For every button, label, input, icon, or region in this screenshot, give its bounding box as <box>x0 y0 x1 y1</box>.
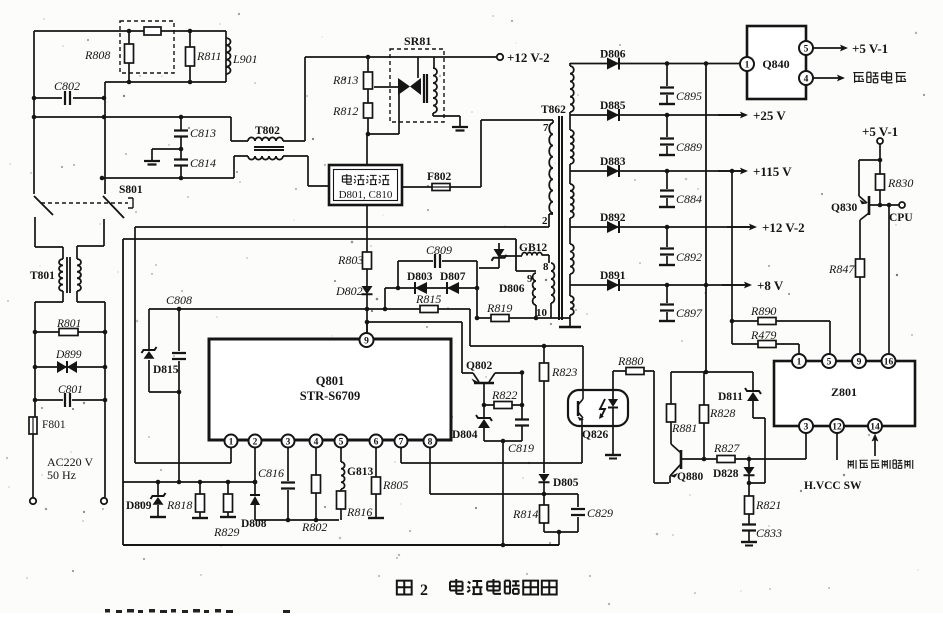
svg-text:R819: R819 <box>486 301 512 315</box>
svg-text:R801: R801 <box>56 318 81 330</box>
pin 4 of Q840 <box>799 71 813 85</box>
capacitor C801 <box>35 399 105 401</box>
capacitor C809 <box>398 261 477 318</box>
wire T802 secondary right <box>283 156 329 186</box>
wire bottom ground bus <box>123 544 559 546</box>
svg-text:C819: C819 <box>508 441 534 455</box>
svg-text:D892: D892 <box>600 212 626 224</box>
svg-text:AC220 V: AC220 V <box>47 455 93 469</box>
capacitor C819 <box>521 372 523 441</box>
arrow reset voltage output <box>813 77 839 79</box>
svg-text:Q840: Q840 <box>762 57 789 71</box>
svg-text:+25 V: +25 V <box>753 108 786 123</box>
resistor R821 <box>748 483 750 524</box>
svg-text:H.VCC SW: H.VCC SW <box>804 480 862 492</box>
svg-text:Q880: Q880 <box>677 471 703 483</box>
resistor R880 <box>626 368 644 375</box>
svg-text:9: 9 <box>857 357 862 367</box>
wire opto LED top to R880 <box>613 371 626 390</box>
svg-text:R881: R881 <box>671 421 697 435</box>
wire primary ground return <box>123 239 536 271</box>
svg-text:C895: C895 <box>676 89 702 103</box>
svg-text:Q802: Q802 <box>466 360 492 372</box>
resistor R802 <box>315 447 317 520</box>
pin 12 of Z801 <box>830 419 844 433</box>
svg-text:CPU: CPU <box>889 212 913 224</box>
svg-text:R814: R814 <box>512 507 538 521</box>
svg-text:F801: F801 <box>42 419 66 431</box>
svg-text:D805: D805 <box>553 477 579 489</box>
diode D885 <box>570 114 741 116</box>
pin 16 of Z801 <box>882 354 896 368</box>
svg-text:5: 5 <box>339 437 344 447</box>
svg-text:R802: R802 <box>301 520 327 534</box>
svg-text:+115 V: +115 V <box>753 164 792 179</box>
capacitor C889 <box>666 115 668 154</box>
svg-text:D809: D809 <box>126 500 152 512</box>
wire box top <box>366 134 368 165</box>
wire left AC rail <box>34 31 63 259</box>
inductor L901 <box>225 31 227 82</box>
diode D806 <box>570 63 740 65</box>
svg-text:D891: D891 <box>600 270 626 282</box>
capacitor C895 <box>666 64 668 104</box>
svg-text:F802: F802 <box>427 171 452 183</box>
resistor R801 <box>35 331 105 333</box>
wire T801 bottom leads <box>35 291 63 417</box>
svg-text:C884: C884 <box>676 192 702 206</box>
diode D803 <box>415 282 427 294</box>
transformer T802 <box>248 137 283 141</box>
svg-text:50 Hz: 50 Hz <box>47 468 76 482</box>
svg-text:8: 8 <box>543 261 549 273</box>
resistor R811 <box>189 31 191 82</box>
svg-text:S801: S801 <box>119 184 143 196</box>
pin 3 of Z801 <box>799 419 813 433</box>
wire coil to ground <box>433 113 460 126</box>
capacitor C829 <box>577 494 579 532</box>
svg-text:R813: R813 <box>332 73 358 87</box>
svg-text:6: 6 <box>374 437 379 447</box>
ground near C813 <box>152 149 181 160</box>
svg-text:C808: C808 <box>166 293 192 307</box>
svg-text:R829: R829 <box>213 525 239 539</box>
wire pin2 bottom bus <box>255 519 339 521</box>
diode D892 <box>570 226 750 228</box>
wire F802 to T862 pin7 <box>481 120 553 187</box>
svg-text:D883: D883 <box>600 156 626 168</box>
wire +12V-2 top line <box>305 56 434 58</box>
svg-text:C892: C892 <box>676 250 702 264</box>
svg-text:C802: C802 <box>54 79 80 93</box>
svg-text:D815: D815 <box>153 364 179 376</box>
svg-text:D804: D804 <box>452 429 478 441</box>
wire pin12 HVCC SW <box>836 433 838 460</box>
svg-text:7: 7 <box>399 437 404 447</box>
wire supply rail to R881 R828 <box>671 371 753 373</box>
wire D803 line <box>385 288 477 309</box>
svg-text:D803: D803 <box>407 271 433 283</box>
switch S801 <box>34 196 53 215</box>
wire pin14 overvoltage detect <box>874 438 876 456</box>
svg-text:1: 1 <box>745 60 750 70</box>
svg-text:C829: C829 <box>587 506 613 520</box>
svg-text:T862: T862 <box>541 104 566 116</box>
zener diode D809 <box>157 482 159 495</box>
wire R812 bottom to triac <box>368 94 399 134</box>
resistor R805 <box>375 447 377 517</box>
svg-text:D899: D899 <box>55 349 82 361</box>
capacitor C814 <box>180 149 182 178</box>
svg-text:R847: R847 <box>828 262 855 276</box>
svg-text:R830: R830 <box>887 176 913 190</box>
wire opto ground <box>612 426 614 454</box>
dashed box around R808 <box>120 21 174 73</box>
svg-text:16: 16 <box>884 357 894 367</box>
svg-text:4: 4 <box>314 437 319 447</box>
IC Z801 box <box>774 361 915 426</box>
zener diode D804 <box>483 405 485 418</box>
svg-text:2: 2 <box>253 437 258 447</box>
svg-text:7: 7 <box>543 122 549 134</box>
bidirectional diode D899 <box>35 366 105 368</box>
resistor (top, unlabeled) in dashed box <box>144 27 161 35</box>
svg-text:Q801: Q801 <box>316 374 344 388</box>
pin 1 of Q840 <box>740 57 754 71</box>
capacitor C892 <box>666 227 668 264</box>
wire zener bus <box>123 481 256 483</box>
wire Q830 base to CPU <box>869 204 899 206</box>
wire pin8 to D805 R814 C829 <box>430 447 578 494</box>
pin 9 of Q801 <box>366 322 368 333</box>
diode D891 <box>570 284 745 286</box>
svg-text:14: 14 <box>870 422 880 432</box>
wire triac gate <box>374 86 398 88</box>
fuse F801 <box>29 417 37 434</box>
diode D808 <box>254 447 256 495</box>
svg-text:3: 3 <box>804 422 809 432</box>
svg-text:R821: R821 <box>755 498 781 512</box>
resistor R890 <box>732 321 830 354</box>
wire box bottom <box>366 205 368 252</box>
svg-text:R818: R818 <box>166 498 192 512</box>
diode D828 <box>748 459 750 467</box>
block rectifier-filter D801 C810 <box>329 165 402 205</box>
relay SR81 dashed box <box>390 49 444 122</box>
zener diode D811 <box>752 372 754 391</box>
svg-text:R880: R880 <box>617 354 643 368</box>
pin 5 of Q840 <box>799 41 813 55</box>
resistor R819 <box>479 317 570 319</box>
svg-text:T801: T801 <box>30 270 55 282</box>
svg-text:SR81: SR81 <box>404 34 431 48</box>
svg-text:R808: R808 <box>84 48 110 62</box>
resistor R815 <box>420 306 438 313</box>
IC Q801 STR-S6709 box <box>209 339 451 440</box>
svg-text:+5 V-1: +5 V-1 <box>852 41 888 56</box>
wire R880 to Q880 emitter <box>644 371 669 483</box>
caption Figure 2 <box>397 581 412 595</box>
wire Q830 collector to R847 <box>860 213 869 259</box>
resistor R803 <box>363 252 372 269</box>
svg-text:+8 V: +8 V <box>757 278 784 293</box>
svg-text:9: 9 <box>364 336 369 346</box>
transformer GB12 winding <box>499 255 549 263</box>
capacitor C813 <box>180 117 182 149</box>
zener diode D806 <box>479 243 499 268</box>
capacitor C816 <box>287 447 289 520</box>
T862 winding end bar <box>569 318 571 326</box>
svg-text:D807: D807 <box>440 271 466 283</box>
transistor Q802 <box>474 382 494 385</box>
svg-text:C801: C801 <box>58 384 83 396</box>
resistor R818 <box>199 482 201 517</box>
svg-text:R822: R822 <box>491 388 517 402</box>
diode D802 <box>366 269 368 286</box>
svg-text:R815: R815 <box>415 292 441 306</box>
resistor R847 <box>856 259 865 277</box>
svg-text:T802: T802 <box>255 125 280 137</box>
wire pin7 to optocoupler <box>401 426 582 463</box>
svg-text:+12 V-2: +12 V-2 <box>507 50 550 65</box>
svg-text:2: 2 <box>542 215 548 227</box>
transistor Q880 <box>680 450 683 469</box>
svg-text:C813: C813 <box>190 126 216 140</box>
svg-text:2: 2 <box>420 582 428 599</box>
resistor R822 <box>484 404 522 406</box>
svg-text:R479: R479 <box>750 328 776 342</box>
svg-text:3: 3 <box>286 437 291 447</box>
arrow +5V-1 output <box>813 47 842 49</box>
pin 9 of Z801 <box>852 354 866 368</box>
svg-text:D885: D885 <box>600 100 626 112</box>
resistor R816 <box>340 489 342 491</box>
cut-off text at bottom edge <box>105 609 110 613</box>
pin 5 of Z801 <box>822 354 836 368</box>
zener diode D815 <box>148 309 150 349</box>
resistor R823 <box>543 346 545 363</box>
wire C813 feed <box>34 117 248 141</box>
IC Q840 box <box>747 26 806 99</box>
svg-text:C814: C814 <box>190 156 216 170</box>
svg-text:Q826: Q826 <box>582 429 608 441</box>
svg-text:+12 V-2: +12 V-2 <box>762 220 805 235</box>
svg-text:8: 8 <box>428 437 433 447</box>
wire primary ground bus left <box>122 239 124 545</box>
optocoupler Q826 <box>582 346 584 390</box>
wire top filter loop <box>34 30 226 32</box>
svg-text:D806: D806 <box>600 49 626 61</box>
svg-text:R827: R827 <box>713 441 740 455</box>
resistor R813 <box>367 57 369 72</box>
svg-text:C816: C816 <box>258 466 284 480</box>
wire R815 line <box>367 309 470 346</box>
svg-text:R890: R890 <box>750 304 776 318</box>
pin 1 of Z801 <box>792 354 806 368</box>
wire C814 bottom <box>102 156 248 178</box>
svg-text:Z801: Z801 <box>831 385 857 399</box>
svg-text:1: 1 <box>797 357 802 367</box>
T862 secondary winding <box>570 66 574 112</box>
svg-text:D811: D811 <box>718 391 743 403</box>
svg-text:C889: C889 <box>676 140 702 154</box>
capacitor C833 <box>742 525 756 531</box>
svg-text:R811: R811 <box>196 49 221 63</box>
svg-text:R803: R803 <box>337 253 363 267</box>
svg-text:C897: C897 <box>676 306 703 320</box>
relay coil SR81 <box>424 74 427 103</box>
transformer T801 <box>59 259 63 291</box>
wire C819 ground drop <box>502 441 504 545</box>
capacitor C897 <box>666 285 668 320</box>
svg-text:R805: R805 <box>382 478 408 492</box>
svg-text:4: 4 <box>804 74 809 84</box>
terminal CPU <box>899 202 905 208</box>
resistor R830 <box>879 160 881 205</box>
resistor R812 <box>364 103 373 118</box>
svg-text:Q830: Q830 <box>831 202 857 214</box>
diode D883 <box>570 170 741 172</box>
wire filter bottom <box>105 81 226 83</box>
wire +115V to R890 R479 <box>731 171 733 344</box>
svg-text:5: 5 <box>827 357 832 367</box>
svg-text:D828: D828 <box>713 468 739 480</box>
inductor G813 <box>340 447 342 462</box>
svg-text:C809: C809 <box>426 243 452 257</box>
wire C808 line <box>149 308 367 310</box>
resistor R814 <box>540 505 549 523</box>
svg-text:R812: R812 <box>332 104 358 118</box>
capacitor C802 <box>34 97 104 99</box>
diode D807 <box>447 282 459 294</box>
svg-text:+5 V-1: +5 V-1 <box>862 124 898 139</box>
svg-text:R823: R823 <box>551 365 577 379</box>
pins 1-8 of Q801 <box>225 435 238 448</box>
pin 14 of Z801 <box>868 419 882 433</box>
resistor R881 <box>670 372 672 404</box>
wire CPU branch to Z801 pin16 <box>888 205 890 354</box>
svg-text:D806: D806 <box>499 283 525 295</box>
svg-text:D802: D802 <box>335 284 363 298</box>
wire +5V rail bus <box>705 64 707 373</box>
wire Q830 emitter loop <box>859 160 880 203</box>
svg-text:C833: C833 <box>756 526 782 540</box>
svg-text:G813: G813 <box>347 466 373 478</box>
svg-text:1: 1 <box>229 437 234 447</box>
svg-text:12: 12 <box>832 422 842 432</box>
svg-text:GB12: GB12 <box>519 242 547 254</box>
terminal +12V-2 <box>434 56 497 58</box>
resistor R827 <box>717 456 735 463</box>
AC terminals <box>30 498 36 504</box>
wire T802 primary right <box>283 57 305 141</box>
resistor R829 <box>227 482 229 516</box>
wire Q880 base line <box>681 433 806 459</box>
resistor R479 <box>732 344 799 354</box>
fuse F802 <box>402 186 481 188</box>
resistor R828 <box>703 372 705 459</box>
resistor R808 <box>128 31 130 82</box>
svg-text:L901: L901 <box>232 52 258 66</box>
wire R823 top line <box>470 345 583 347</box>
capacitor C884 <box>666 171 668 206</box>
wire pin1 to T862 pin2 <box>135 214 553 463</box>
wire pin9 net to Q802 base <box>367 322 522 373</box>
svg-text:STR-S6709: STR-S6709 <box>300 389 360 403</box>
capacitor C808 <box>178 309 180 482</box>
wire right AC rail <box>77 82 105 259</box>
svg-text:D801, C810: D801, C810 <box>339 189 393 201</box>
svg-text:R828: R828 <box>709 406 735 420</box>
diode D805 <box>543 381 545 473</box>
triac in SR81 <box>398 78 410 95</box>
transistor Q830 <box>868 196 871 215</box>
svg-text:5: 5 <box>804 44 809 54</box>
